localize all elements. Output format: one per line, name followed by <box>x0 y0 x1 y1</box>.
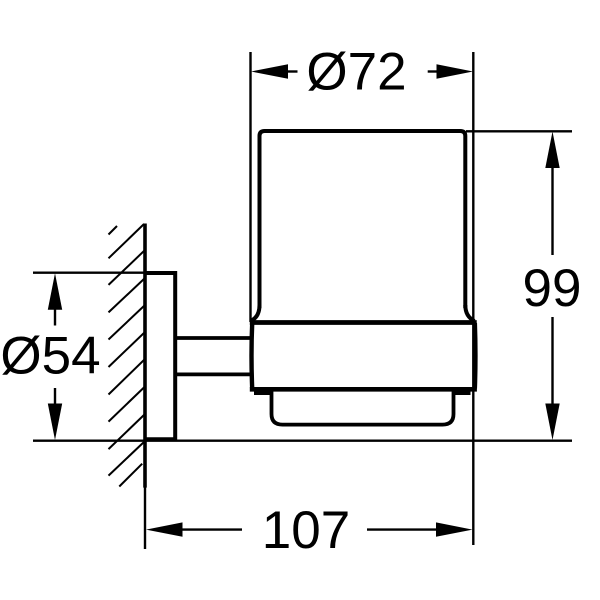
svg-text:99: 99 <box>523 259 582 318</box>
svg-text:Ø72: Ø72 <box>306 43 406 102</box>
svg-text:107: 107 <box>262 501 350 560</box>
svg-text:Ø54: Ø54 <box>0 327 100 386</box>
